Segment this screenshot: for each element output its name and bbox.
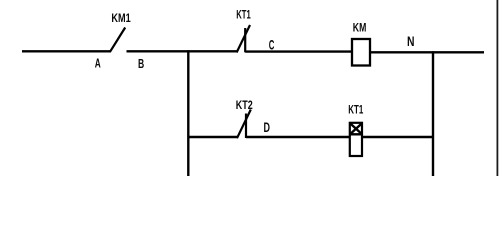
wire: coil KT1 to right rail (bottom rung) xyxy=(362,136,433,138)
wire: bottom rung from branch to KT2 contact xyxy=(188,136,237,138)
svg-text:B: B xyxy=(138,57,144,71)
coil KM rectangle xyxy=(352,39,370,66)
coil KT1 body rectangle xyxy=(350,123,362,156)
svg-text:KT1: KT1 xyxy=(236,8,251,22)
wire: vertical branch at node B junction (x=188) xyxy=(187,50,189,176)
coil KT1 delay-box X mark xyxy=(350,123,362,134)
wire: coil KM to right rail xyxy=(371,51,484,53)
svg-text:KT1: KT1 xyxy=(348,103,363,117)
contact KT2 fixed-contact bar xyxy=(245,114,247,139)
wire: left lead into contact A xyxy=(22,50,111,52)
right screenshot border line xyxy=(496,0,498,176)
contact KM1 (normally-open) movable blade xyxy=(110,28,125,52)
wire: node B to KT1 contact xyxy=(127,50,238,52)
svg-text:KM: KM xyxy=(353,20,367,34)
contact KT2 (normally-closed) blade xyxy=(237,110,251,139)
contact KT1 fixed-contact bar xyxy=(244,28,246,52)
svg-text:KT2: KT2 xyxy=(236,98,253,112)
contact KT1 (normally-closed) blade xyxy=(237,25,250,53)
wire: node C to coil KM xyxy=(245,50,352,52)
coil KT1 time-delay box divider xyxy=(349,133,363,135)
svg-text:KM1: KM1 xyxy=(111,11,131,25)
svg-text:A: A xyxy=(95,57,101,71)
wire: node D to coil KT1 xyxy=(246,136,350,138)
wire: vertical branch at node N junction (x=433) xyxy=(432,51,434,176)
svg-text:N: N xyxy=(407,34,415,49)
svg-text:C: C xyxy=(269,37,275,52)
svg-text:D: D xyxy=(264,120,271,135)
